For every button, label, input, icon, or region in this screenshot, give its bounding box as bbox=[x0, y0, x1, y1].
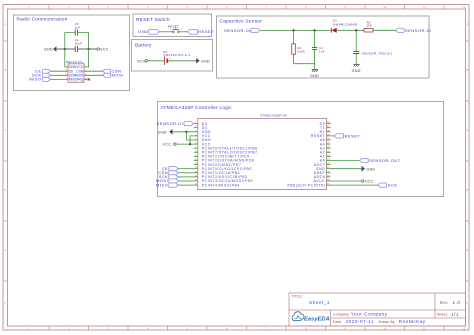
power flag VCC (battery) bbox=[137, 59, 148, 63]
title block texts bbox=[292, 295, 461, 325]
svg-text:IRQ: IRQ bbox=[77, 78, 83, 82]
svg-text:D: D bbox=[4, 188, 6, 192]
svg-text:10uF: 10uF bbox=[75, 42, 83, 46]
block frame: Radio Communication bbox=[14, 15, 130, 91]
node junction at R1 bbox=[292, 29, 294, 31]
svg-text:CR2032-BS-6-1: CR2032-BS-6-1 bbox=[163, 53, 190, 57]
wire node down to sensor pad bbox=[355, 30, 357, 51]
svg-text:GND: GND bbox=[201, 59, 210, 63]
netport SENSOR-DI (to IC pin D3) bbox=[157, 121, 194, 126]
wire GND branch to pin 5 bbox=[186, 132, 193, 140]
svg-text:11: 11 bbox=[423, 326, 426, 330]
wire C1 to node2 bbox=[78, 48, 89, 50]
wire CE to module bbox=[51, 70, 69, 72]
wire SENSOR-OUT to diode bbox=[260, 29, 331, 31]
node junction left bbox=[64, 48, 66, 50]
wire bottom rail R1 to C1 bbox=[294, 63, 315, 65]
netport SENSOR-OUT (sensor block) bbox=[224, 28, 260, 33]
svg-text:PB5(SCK/PCINT5): PB5(SCK/PCINT5) bbox=[288, 183, 326, 187]
svg-text:SENSOR-DI: SENSOR-DI bbox=[405, 28, 432, 33]
netport MISO (radio) bbox=[29, 77, 50, 82]
svg-text:10: 10 bbox=[383, 5, 387, 9]
svg-text:Your Company: Your Company bbox=[351, 312, 388, 317]
svg-text:2020-07-11: 2020-07-11 bbox=[346, 319, 375, 324]
netport CSN (IC left) bbox=[158, 170, 178, 175]
svg-text:A: A bbox=[466, 22, 468, 26]
netport SCK (IC left) bbox=[158, 174, 178, 179]
svg-text:EasyEDA: EasyEDA bbox=[304, 317, 330, 323]
ground GND (under sensor pad) bbox=[352, 64, 361, 73]
svg-text:REV:: REV: bbox=[440, 301, 449, 305]
svg-text:MISO: MISO bbox=[156, 182, 168, 187]
resistor R2 10K bbox=[364, 21, 373, 32]
wire down to R1 bbox=[293, 30, 295, 43]
battery B1 CR2032-BS-6-1 bbox=[161, 50, 191, 65]
svg-text:GND: GND bbox=[138, 29, 148, 34]
svg-text:ATMEGA328P Controller Logic: ATMEGA328P Controller Logic bbox=[161, 105, 233, 111]
wire IC PB5 to SCK bbox=[331, 184, 378, 186]
netport GND (reset switch) bbox=[138, 29, 159, 34]
wire node1 to C1 bbox=[65, 48, 75, 50]
wire diode to node bbox=[337, 29, 364, 31]
svg-text:RESET Switch: RESET Switch bbox=[136, 17, 170, 23]
netport CE (radio) bbox=[35, 68, 50, 73]
wire VCC to battery bbox=[148, 60, 164, 62]
wire GND to pin 3 bbox=[173, 131, 194, 133]
svg-text:MISO: MISO bbox=[29, 77, 41, 82]
svg-text:GND: GND bbox=[44, 48, 53, 52]
svg-text:RESET: RESET bbox=[345, 134, 361, 139]
netport SCK (radio) bbox=[32, 73, 51, 78]
svg-text:11: 11 bbox=[423, 5, 426, 9]
ground GND (under C1) bbox=[310, 70, 319, 79]
wire IRQ stub bbox=[84, 78, 88, 80]
svg-text:SCK: SCK bbox=[388, 183, 398, 188]
netport MOSI (IC left) bbox=[156, 178, 178, 183]
svg-text:Capacitive Sensor: Capacitive Sensor bbox=[220, 19, 263, 25]
netport MOSI (radio) bbox=[103, 73, 124, 78]
capacitor C1 1uF (sensor) bbox=[312, 46, 325, 54]
wire rail down to ground bbox=[314, 64, 316, 70]
wire SCK to module bbox=[51, 74, 69, 76]
wire MISO to IC bbox=[178, 184, 194, 186]
svg-text:SENSOR-OUT: SENSOR-OUT bbox=[369, 158, 401, 163]
wire IC A0 to SENSOR-OUT bbox=[331, 160, 360, 162]
netport SENSOR-OUT (IC right) bbox=[359, 158, 400, 163]
wire node2 to VCC bbox=[89, 48, 97, 50]
svg-text:C: C bbox=[4, 128, 6, 132]
wire VCC branch to pin 4 bbox=[190, 136, 194, 144]
svg-text:GND: GND bbox=[310, 74, 319, 78]
wire left riser down to U1 GND pin bbox=[65, 49, 68, 67]
diode D1 1N4148 bbox=[331, 18, 357, 33]
wire IC RESET pin to port bbox=[331, 135, 335, 137]
node junction at C1 bbox=[314, 29, 316, 31]
IC U2 left pins (stubs, numbers, names) bbox=[194, 122, 258, 188]
netport SENSOR-DI (sensor block) bbox=[396, 28, 432, 33]
IC U2 ATMEGA328P-AU body bbox=[198, 113, 327, 189]
svg-text:SENSOR-DI: SENSOR-DI bbox=[157, 121, 184, 126]
svg-text:VCC: VCC bbox=[137, 59, 146, 63]
netport RESET (switch) bbox=[187, 29, 214, 34]
svg-text:VCC: VCC bbox=[365, 180, 374, 184]
capacitor C1 bbox=[75, 38, 83, 52]
block frame: ATMEGA328P Controller Logic bbox=[158, 102, 444, 197]
wire R2 to SENSOR-DI bbox=[373, 29, 396, 31]
svg-text:Sheet:: Sheet: bbox=[437, 313, 448, 317]
svg-text:12: 12 bbox=[462, 326, 466, 330]
resistor R1 510K bbox=[292, 44, 306, 54]
block frame: Battery bbox=[132, 40, 213, 72]
svg-text:A: A bbox=[4, 22, 6, 26]
EasyEDA logo bbox=[292, 312, 330, 323]
netport CSN (radio) bbox=[103, 68, 122, 73]
sensor pad SENSOR_TRACK1 bbox=[353, 51, 392, 55]
switch S1 RESET bbox=[168, 24, 183, 32]
wire CSN to IC bbox=[178, 172, 194, 174]
netport CE (IC left) bbox=[162, 166, 179, 171]
wire GND to node1 bbox=[57, 48, 65, 50]
svg-text:NRF24L01+: NRF24L01+ bbox=[66, 60, 84, 64]
svg-text:Sheet_1: Sheet_1 bbox=[309, 300, 330, 305]
wire battery to GND bbox=[168, 60, 196, 62]
svg-text:VCC: VCC bbox=[163, 142, 172, 146]
wire down to C1 bbox=[314, 30, 316, 47]
svg-text:ATMEGA328P-AU: ATMEGA328P-AU bbox=[260, 113, 287, 117]
svg-text:1uF: 1uF bbox=[319, 50, 325, 54]
wire GND to switch bbox=[160, 31, 173, 33]
svg-text:Company:: Company: bbox=[333, 312, 350, 316]
svg-text:D: D bbox=[466, 188, 468, 192]
no-connect flag on IRQ bbox=[88, 78, 90, 80]
wire C5 to right riser bbox=[78, 33, 89, 50]
wire module to CSN bbox=[84, 70, 103, 72]
svg-text:12: 12 bbox=[462, 5, 466, 9]
svg-text:1.0: 1.0 bbox=[453, 300, 461, 305]
svg-text:Date:: Date: bbox=[333, 320, 342, 324]
power flag VCC (radio) bbox=[97, 48, 109, 52]
svg-text:F: F bbox=[4, 301, 6, 305]
ground GND (radio left) bbox=[44, 46, 56, 52]
block frame: Capacitive Sensor bbox=[217, 16, 430, 78]
svg-text:1N4148_C140478: 1N4148_C140478 bbox=[333, 22, 358, 26]
svg-text:RonMcKay: RonMcKay bbox=[399, 319, 426, 324]
svg-text:E: E bbox=[4, 248, 6, 252]
power flag VCC (IC right) bbox=[362, 180, 374, 184]
wire right riser down to U1 VCC pin bbox=[84, 49, 89, 67]
svg-text:10K: 10K bbox=[366, 24, 372, 28]
wire C1 to bottom rail bbox=[314, 50, 316, 64]
node junction GND branch bbox=[185, 131, 187, 133]
svg-text:B: B bbox=[4, 68, 6, 72]
wire IC GND pin to ground bbox=[331, 168, 362, 170]
node junction right bbox=[88, 48, 90, 50]
ground GND (battery) bbox=[196, 58, 210, 64]
module U1 NRF24L01+ bbox=[66, 60, 87, 83]
svg-text:1/1: 1/1 bbox=[451, 312, 459, 317]
netport MISO (IC left) bbox=[156, 182, 178, 187]
svg-text:TITLE:: TITLE: bbox=[292, 295, 303, 299]
svg-text:E: E bbox=[466, 248, 468, 252]
svg-text:RESET: RESET bbox=[198, 29, 214, 34]
svg-text:Drawn By:: Drawn By: bbox=[379, 320, 396, 324]
svg-text:B: B bbox=[466, 68, 468, 72]
svg-text:Radio Communication: Radio Communication bbox=[17, 17, 68, 23]
ground GND (IC left) bbox=[158, 129, 173, 135]
wire switch to RESET port bbox=[179, 31, 187, 33]
netport RESET (IC right) bbox=[334, 134, 360, 139]
svg-text:Battery: Battery bbox=[135, 43, 152, 49]
svg-text:GND: GND bbox=[158, 130, 167, 134]
svg-text:510K: 510K bbox=[297, 50, 305, 54]
block frame: RESET Switch bbox=[133, 14, 212, 37]
node junction VCC branch bbox=[189, 143, 191, 145]
wire R1 to bottom rail bbox=[293, 54, 295, 64]
svg-text:10: 10 bbox=[383, 326, 387, 330]
wire MISO to module bbox=[51, 78, 69, 80]
svg-text:VCC: VCC bbox=[100, 48, 109, 52]
ground GND (IC right) bbox=[362, 166, 376, 172]
wire IC AVCC to VCC bbox=[331, 180, 362, 182]
svg-text:PCINT4/MISO/PB4: PCINT4/MISO/PB4 bbox=[202, 183, 240, 187]
node junction after diode bbox=[355, 29, 357, 31]
netport SCK (IC right) bbox=[378, 183, 398, 188]
svg-text:SENSOR_TRACK1: SENSOR_TRACK1 bbox=[362, 52, 393, 56]
title block frame bbox=[289, 293, 466, 326]
wire loop to capacitor C5 (left riser and top) bbox=[65, 33, 75, 50]
svg-text:F: F bbox=[466, 301, 468, 305]
svg-text:1uF: 1uF bbox=[75, 26, 81, 30]
wire pad to ground bbox=[355, 54, 357, 65]
svg-text:GND: GND bbox=[352, 69, 361, 73]
capacitor C5 bbox=[75, 22, 81, 35]
wire SCK to IC bbox=[178, 176, 194, 178]
wire VCC to pin 6 bbox=[176, 143, 194, 145]
IC U2 right pins (stubs, numbers, names) bbox=[288, 122, 331, 188]
svg-text:C: C bbox=[466, 128, 468, 132]
wire MOSI to IC bbox=[178, 180, 194, 182]
wire CE to IC bbox=[178, 168, 194, 170]
wire module to MOSI bbox=[84, 74, 103, 76]
power flag VCC (IC left) bbox=[163, 142, 177, 146]
svg-text:GND: GND bbox=[366, 167, 375, 171]
svg-text:MOSI: MOSI bbox=[112, 73, 124, 78]
